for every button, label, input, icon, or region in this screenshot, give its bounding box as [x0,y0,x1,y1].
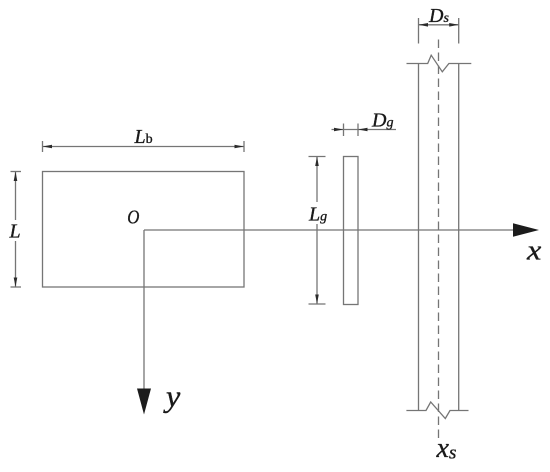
dimension line Lg (upper segment) [316,157,318,203]
bottom break line [406,402,468,419]
extension tick left of Lb [42,141,44,152]
extension tick right of Lb [243,141,245,152]
svg-text:y: y [163,379,180,413]
extension tick right of Ds [458,18,460,44]
extension tick left of Ds [418,18,420,44]
arrowhead Lg bottom [315,295,319,305]
arrowhead Lg top [315,157,319,167]
extension tick bottom of L [11,286,22,288]
extension tick right of Dg [357,124,359,137]
top break line [407,55,472,72]
extension tick top of Lg [309,156,326,158]
grating rectangle [344,157,359,305]
x axis line [144,229,515,231]
screen wall left line [418,64,420,411]
extension tick bottom of Lg [309,303,326,305]
arrowhead Dg left (outside pointing right) [334,128,344,132]
dimension line Ds [419,24,459,26]
svg-text:L: L [9,221,21,243]
arrowhead Ds left [419,23,429,27]
extension tick left of Dg [343,124,345,137]
dimension line Lg (lower segment) [316,222,318,304]
arrowhead L top [14,172,18,182]
dimension line L (lower segment) [15,241,17,287]
arrowhead Ds right [449,23,459,27]
screen wall right line [458,64,460,411]
arrowhead Lb left [43,145,53,149]
arrowhead Dg right (outside pointing left) [358,128,368,132]
svg-text:O: O [127,206,140,229]
dashed center line of screen [438,40,440,440]
x axis arrowhead [513,223,539,237]
dimension line L (upper segment) [15,172,17,222]
y axis arrowhead [137,389,151,415]
arrowhead Lb right [235,145,245,149]
arrowhead L bottom [14,278,18,288]
extension tick top of L [11,171,22,173]
label Lg [304,204,330,226]
label L [7,220,23,243]
dimension line Lb [43,146,245,148]
svg-text:x: x [526,234,542,266]
y axis line [143,230,145,390]
dimension line Dg [332,129,397,131]
beam rectangle [43,172,245,288]
